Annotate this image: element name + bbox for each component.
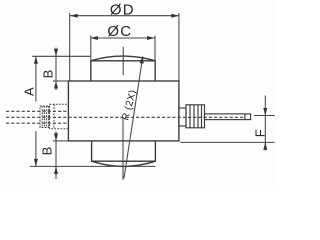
dimension F: top reference line <box>254 115 275 117</box>
cable gland nut outline <box>40 106 50 128</box>
dim D right arrowhead <box>171 14 179 18</box>
svg-text:ØD: ØD <box>110 2 135 19</box>
load cell main block body <box>68 81 178 141</box>
dim B bottom upper arrowhead <box>54 133 58 141</box>
rod tip divider <box>244 114 246 120</box>
vertical centerline top <box>122 47 124 75</box>
dimension B bottom: dim line <box>55 132 57 180</box>
bottom cylinder <box>92 141 156 161</box>
dimension B top: block-top extension stub <box>53 80 68 82</box>
right connector group (solid) <box>179 105 251 128</box>
cable adapter outline <box>50 104 69 129</box>
dim B bottom lower arrowhead <box>54 166 58 174</box>
dim B top upper arrowhead <box>54 49 58 57</box>
connector nut <box>186 105 205 128</box>
cable wire bottom <box>6 122 68 124</box>
gland thread line 2 <box>43 106 45 128</box>
arrowheads <box>34 14 267 174</box>
connector boss <box>179 108 186 126</box>
vertical centerline bottom <box>122 119 124 180</box>
dimension C: right extension line <box>154 36 156 61</box>
adapter divider <box>53 104 55 129</box>
dimension D: right extension line <box>178 13 180 81</box>
R(2X) leader line <box>124 56 143 178</box>
dimension B bottom: block-bottom extension stub <box>53 140 68 142</box>
nut face line 4 <box>201 105 203 128</box>
connector rod <box>205 114 251 120</box>
dim C left arrowhead <box>90 36 98 40</box>
dimension D: left extension line <box>69 13 71 81</box>
gland thread line 4 <box>47 106 49 128</box>
R leader arrowhead <box>140 56 144 64</box>
top reference line (dome peak) <box>32 55 91 57</box>
horizontal centerline axis <box>6 116 244 118</box>
dimension C: dim line <box>90 37 154 39</box>
dimension A: dim line lower segment <box>35 131 37 166</box>
svg-text:B: B <box>40 147 55 156</box>
nut face line 2 <box>193 105 195 128</box>
top cylinder <box>91 61 155 81</box>
svg-text:F: F <box>253 129 268 137</box>
dimension B top: dim line <box>55 48 57 91</box>
svg-text:B: B <box>41 70 56 79</box>
gland thread line 1 <box>41 106 43 128</box>
dim F upper arrowhead <box>263 108 267 116</box>
dim D left arrowhead <box>70 14 78 18</box>
dimension D: dim line <box>70 15 179 17</box>
nut face line 1 <box>189 105 191 128</box>
gland thread line 3 <box>45 106 47 128</box>
top dome arc R <box>91 56 155 61</box>
cable and left connector (hidden/dashed) <box>6 111 244 123</box>
dim C right arrowhead <box>147 36 155 40</box>
dimension C: left extension line <box>90 36 92 61</box>
dim A bottom arrowhead <box>34 159 38 167</box>
dim F lower arrowhead <box>263 142 267 150</box>
dimension F: bottom reference line <box>180 141 274 143</box>
dim B top lower arrowhead <box>54 81 58 89</box>
svg-text:ØC: ØC <box>107 23 132 40</box>
cable wire top <box>6 110 68 112</box>
dimension A: dim line upper segment <box>35 56 37 101</box>
bottom reference line <box>30 165 156 167</box>
dimension F: dim line <box>264 96 266 151</box>
bottom dome arc R <box>92 161 156 166</box>
nut face line 3 <box>197 105 199 128</box>
svg-text:A: A <box>22 87 37 96</box>
dim A top arrowhead <box>34 56 38 64</box>
